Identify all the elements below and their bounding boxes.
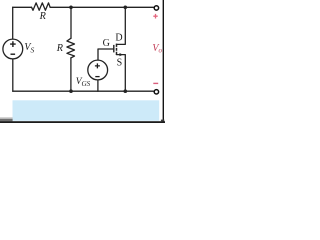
wire vertical branch from node A down to resistor R2 [70, 7, 72, 38]
junction dot R2 to bottom rail [69, 89, 73, 93]
VGS minus sign [95, 76, 99, 78]
border rule foot [161, 120, 164, 122]
transistor Q1 channel dashes [116, 44, 118, 55]
caption highlight bar (light blue) [13, 100, 160, 121]
wire gate lead from Vgs [98, 49, 113, 60]
voltage source VGS circle [88, 60, 108, 80]
VS minus sign [11, 53, 16, 55]
figure right border rule [162, 0, 164, 122]
wire left branch (Vs top lead) [12, 7, 14, 38]
transistor Q1 gate bar [113, 45, 115, 53]
wire drain branch vertical [117, 7, 126, 44]
VS plus sign [10, 41, 16, 47]
page edge gray bar dark [0, 119, 13, 121]
output terminal bottom (open circle) [154, 90, 158, 94]
svg-text:D: D [115, 33, 122, 44]
VGS plus sign [95, 63, 100, 68]
bottom border rule [0, 121, 165, 123]
svg-text:G: G [103, 38, 110, 49]
wire Vs bottom lead [12, 59, 14, 91]
junction dot source to bottom rail [124, 89, 128, 93]
page edge gray bar light [0, 117, 13, 119]
wire top rail left segment [13, 6, 32, 8]
node A junction dot [69, 6, 73, 10]
svg-text:S: S [117, 57, 123, 68]
svg-text:R: R [56, 43, 64, 54]
output terminal top (open circle) [154, 6, 158, 10]
red plus (output polarity) [153, 14, 157, 19]
wire source lead to bottom rail [117, 55, 126, 92]
wire Vgs bottom lead [97, 80, 99, 91]
svg-text:R: R [39, 11, 47, 22]
wire bottom rail [13, 90, 154, 92]
transistor Q1 source arrow [120, 53, 124, 56]
red minus (output polarity) [153, 82, 158, 84]
resistor R2 (shunt, vertical zigzag) [67, 38, 75, 58]
node D junction dot (drain to top rail) [124, 6, 128, 10]
voltage source VS circle [3, 39, 23, 59]
resistor R1 (series, horizontal zigzag) [32, 3, 51, 10]
wire top rail right segment [50, 6, 154, 8]
wire resistor R2 to bottom rail [70, 58, 72, 91]
